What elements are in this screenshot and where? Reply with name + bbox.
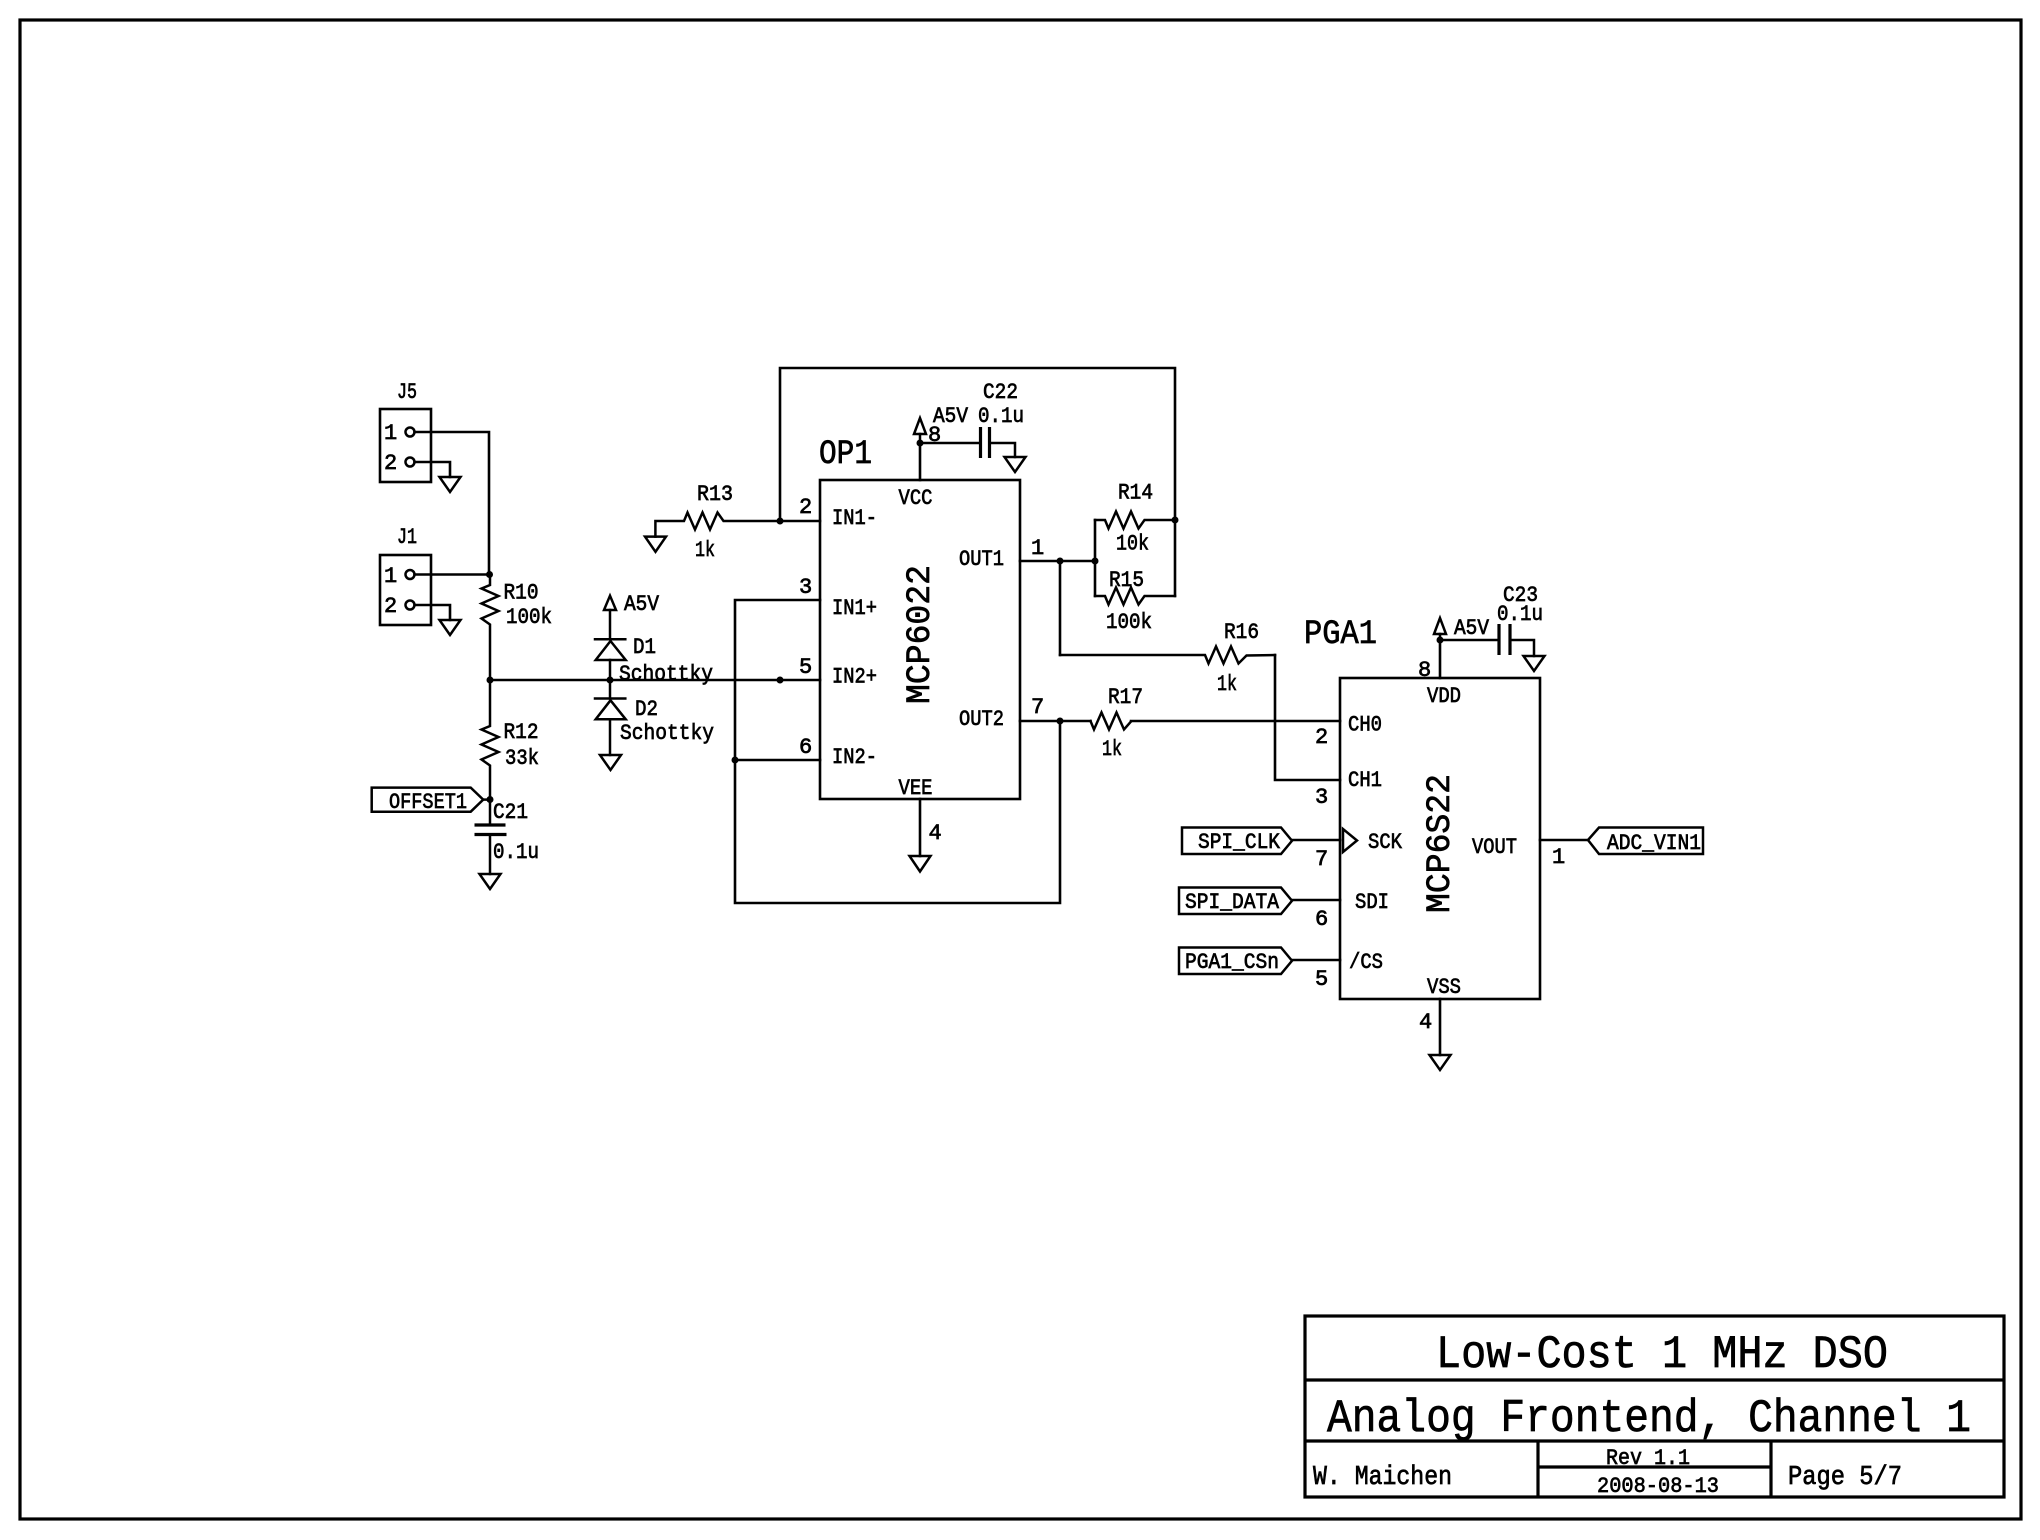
svg-text:SDI: SDI bbox=[1355, 890, 1389, 915]
ground (VSS) bbox=[1430, 1055, 1451, 1070]
svg-text:D1: D1 bbox=[633, 635, 656, 660]
svg-text:SPI_CLK: SPI_CLK bbox=[1198, 830, 1281, 855]
ground (D2) bbox=[600, 755, 621, 770]
svg-text:4: 4 bbox=[929, 821, 942, 846]
resistor R17 bbox=[1091, 685, 1144, 762]
power A5V (PGA1) bbox=[1434, 616, 1490, 641]
svg-text:2008-08-13: 2008-08-13 bbox=[1597, 1474, 1719, 1499]
node OUT2 branch bbox=[1057, 718, 1064, 725]
svg-text:2: 2 bbox=[799, 495, 812, 520]
net flag PGA1_CSn bbox=[1179, 948, 1292, 976]
svg-text:7: 7 bbox=[1315, 847, 1328, 872]
svg-text:33k: 33k bbox=[505, 746, 539, 771]
svg-text:1: 1 bbox=[1031, 536, 1044, 561]
svg-text:CH0: CH0 bbox=[1348, 713, 1382, 738]
svg-text:8: 8 bbox=[1418, 658, 1431, 683]
wire feedback top bbox=[780, 368, 1175, 521]
wire J5 pin1 to J1 node bbox=[415, 432, 490, 575]
svg-text:OUT2: OUT2 bbox=[959, 707, 1004, 732]
svg-text:100k: 100k bbox=[1106, 610, 1152, 635]
svg-text:C21: C21 bbox=[493, 800, 528, 825]
svg-text:5: 5 bbox=[799, 655, 812, 680]
svg-text:VSS: VSS bbox=[1427, 975, 1461, 1000]
wire J1 pin2 to ground bbox=[415, 605, 451, 620]
svg-text:A5V: A5V bbox=[624, 592, 660, 617]
wire VDD pin bbox=[1439, 640, 1442, 678]
svg-text:OP1: OP1 bbox=[819, 436, 872, 474]
svg-text:2: 2 bbox=[1315, 725, 1328, 750]
wire VEE pin to ground bbox=[919, 799, 922, 856]
svg-text:4: 4 bbox=[1419, 1010, 1432, 1035]
wire OUT1 down branch bbox=[1059, 561, 1062, 655]
svg-text:R13: R13 bbox=[697, 482, 733, 507]
resistor R14 bbox=[1095, 481, 1175, 557]
svg-text:Rev 1.1: Rev 1.1 bbox=[1606, 1446, 1690, 1471]
resistor R12 bbox=[482, 680, 540, 800]
svg-text:1k: 1k bbox=[695, 538, 715, 563]
svg-text:R10: R10 bbox=[504, 581, 539, 606]
wire R17 to CH0 bbox=[1131, 720, 1340, 723]
svg-text:VDD: VDD bbox=[1427, 684, 1461, 709]
svg-text:PGA1_CSn: PGA1_CSn bbox=[1185, 950, 1279, 975]
svg-text:0.1u: 0.1u bbox=[1497, 602, 1543, 627]
wire SPI_CLK to SCK bbox=[1292, 839, 1340, 842]
resistor R15 bbox=[1095, 568, 1175, 635]
svg-text:1k: 1k bbox=[1217, 672, 1237, 697]
svg-text:J5: J5 bbox=[397, 380, 417, 405]
op-amp U OP1 (MCP6022) bbox=[819, 436, 1020, 801]
svg-text:100k: 100k bbox=[506, 605, 552, 630]
svg-text:ADC_VIN1: ADC_VIN1 bbox=[1607, 831, 1701, 856]
svg-text:R12: R12 bbox=[504, 720, 539, 745]
power A5V (OP1) bbox=[914, 404, 969, 443]
svg-text:Schottky: Schottky bbox=[620, 721, 714, 746]
ground (C23) bbox=[1524, 656, 1545, 671]
wire R14/R15 right rail bbox=[1174, 520, 1177, 596]
svg-text:MCP6S22: MCP6S22 bbox=[1422, 774, 1460, 913]
svg-text:7: 7 bbox=[1031, 695, 1044, 720]
node R14 right junction bbox=[1172, 517, 1179, 524]
svg-text:W. Maichen: W. Maichen bbox=[1313, 1463, 1452, 1493]
svg-text:IN1-: IN1- bbox=[832, 506, 877, 531]
svg-text:VOUT: VOUT bbox=[1472, 835, 1517, 860]
svg-text:A5V: A5V bbox=[933, 404, 969, 429]
svg-text:Page 5/7: Page 5/7 bbox=[1788, 1463, 1902, 1493]
connector J5 bbox=[380, 380, 431, 482]
svg-text:VEE: VEE bbox=[899, 776, 933, 801]
svg-text:OUT1: OUT1 bbox=[959, 547, 1004, 572]
svg-text:VCC: VCC bbox=[899, 486, 933, 511]
svg-text:OFFSET1: OFFSET1 bbox=[389, 790, 467, 815]
net flag SPI_DATA bbox=[1179, 888, 1292, 916]
node J1/J5 junction bbox=[486, 571, 493, 578]
svg-text:A5V: A5V bbox=[1454, 616, 1490, 641]
svg-text:IN2+: IN2+ bbox=[832, 665, 877, 690]
diode D1 bbox=[595, 635, 713, 687]
svg-text:J1: J1 bbox=[397, 525, 417, 550]
pga U PGA1 (MCP6S22) bbox=[1304, 616, 1540, 1000]
node OFFSET1/C21 junction bbox=[487, 796, 494, 803]
svg-text:5: 5 bbox=[1315, 967, 1328, 992]
svg-text:1: 1 bbox=[384, 421, 397, 446]
svg-text:6: 6 bbox=[799, 735, 812, 760]
connector J1 bbox=[380, 525, 431, 625]
wire pin3 stub and left loop bbox=[735, 600, 1060, 903]
svg-text:D2: D2 bbox=[635, 697, 658, 722]
node R10/R12/IN2+ junction bbox=[487, 677, 494, 684]
wire R16 to CH1 bbox=[1275, 655, 1340, 780]
ground (J5) bbox=[440, 477, 461, 492]
node at 780 on IN2+ bbox=[777, 677, 784, 684]
node VCC junction bbox=[917, 440, 924, 447]
svg-text:0.1u: 0.1u bbox=[978, 404, 1024, 429]
clock input mark SCK bbox=[1343, 829, 1357, 852]
wire PGA1_CSn to /CS bbox=[1292, 959, 1340, 962]
wire IN2+ net bbox=[490, 679, 820, 682]
node OUT1 at R14 rail bbox=[1092, 558, 1099, 565]
node diode junction bbox=[607, 677, 614, 684]
node pin6 junction bbox=[732, 757, 739, 764]
svg-text:PGA1: PGA1 bbox=[1304, 616, 1377, 654]
ground (C22) bbox=[1005, 457, 1026, 472]
svg-text:R16: R16 bbox=[1224, 620, 1259, 645]
wire SPI_DATA to SDI bbox=[1292, 899, 1340, 902]
svg-text:IN1+: IN1+ bbox=[832, 596, 877, 621]
svg-text:1: 1 bbox=[1552, 845, 1565, 870]
resistor R16 bbox=[1060, 620, 1275, 697]
svg-text:10k: 10k bbox=[1116, 532, 1149, 557]
svg-text:2: 2 bbox=[384, 451, 397, 476]
wire VOUT bbox=[1540, 839, 1588, 842]
svg-text:MCP6022: MCP6022 bbox=[902, 565, 940, 704]
wire OUT1 bbox=[1020, 560, 1095, 563]
svg-text:R14: R14 bbox=[1118, 481, 1153, 506]
ground (R13) bbox=[645, 537, 666, 552]
wire pin6 stub bbox=[735, 759, 820, 762]
net flag OFFSET1 bbox=[372, 788, 490, 815]
capacitor C23 bbox=[1440, 583, 1543, 656]
net flag ADC_VIN1 bbox=[1588, 828, 1703, 857]
svg-text:2: 2 bbox=[384, 594, 397, 619]
node VDD junction bbox=[1437, 637, 1444, 644]
svg-text:C22: C22 bbox=[983, 380, 1018, 405]
resistor R13 bbox=[655, 482, 820, 563]
svg-text:Analog Frontend, Channel 1: Analog Frontend, Channel 1 bbox=[1327, 1393, 1971, 1445]
ground (J1) bbox=[440, 620, 461, 635]
svg-text:6: 6 bbox=[1315, 907, 1328, 932]
ground (VEE) bbox=[910, 856, 931, 872]
svg-text:Schottky: Schottky bbox=[619, 662, 713, 687]
wire VSS pin bbox=[1439, 999, 1442, 1055]
svg-text:SPI_DATA: SPI_DATA bbox=[1185, 890, 1280, 915]
capacitor C22 bbox=[920, 380, 1024, 458]
svg-text:3: 3 bbox=[1315, 785, 1328, 810]
svg-text:1: 1 bbox=[384, 564, 397, 589]
diode D2 bbox=[595, 680, 714, 755]
svg-text:3: 3 bbox=[799, 575, 812, 600]
svg-text:IN2-: IN2- bbox=[832, 745, 877, 770]
svg-text:SCK: SCK bbox=[1368, 830, 1403, 855]
resistor R10 bbox=[482, 575, 553, 681]
wire OUT2 bbox=[1020, 720, 1091, 723]
net flag SPI_CLK bbox=[1182, 828, 1292, 856]
title block bbox=[1305, 1316, 2004, 1499]
wire J5 pin2 to ground bbox=[415, 462, 451, 477]
svg-text:CH1: CH1 bbox=[1348, 768, 1382, 793]
wire J1 pin1 to node bbox=[415, 573, 491, 576]
svg-text:R17: R17 bbox=[1108, 685, 1143, 710]
node R13/IN1- junction bbox=[777, 518, 784, 525]
node OUT1 branch bbox=[1057, 558, 1064, 565]
capacitor C21 bbox=[475, 800, 540, 875]
svg-text:0.1u: 0.1u bbox=[493, 840, 539, 865]
wire R14/R15 left rail bbox=[1094, 520, 1097, 596]
wire VCC pin bbox=[919, 443, 922, 480]
svg-text:R15: R15 bbox=[1109, 568, 1144, 593]
svg-text:/CS: /CS bbox=[1349, 950, 1383, 975]
svg-text:1k: 1k bbox=[1102, 737, 1122, 762]
svg-text:Low-Cost 1 MHz DSO: Low-Cost 1 MHz DSO bbox=[1436, 1329, 1888, 1381]
power A5V (diodes) bbox=[604, 592, 660, 639]
ground (C21) bbox=[480, 874, 501, 889]
